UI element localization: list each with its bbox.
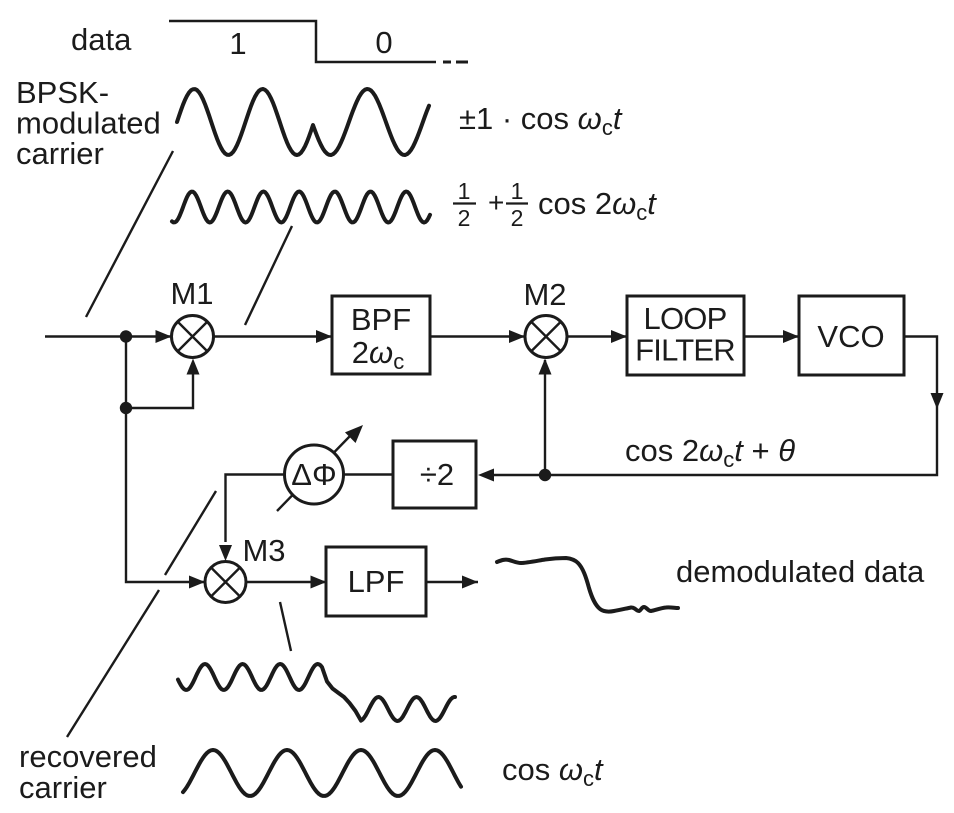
svg-text:data: data [71, 22, 132, 57]
svg-text:BPF: BPF [351, 302, 411, 337]
svg-text:±1 · cos ωct: ±1 · cos ωct [459, 101, 623, 140]
arrowhead: into M1 bottom [187, 359, 200, 375]
junction node: feedback line [539, 469, 551, 481]
wire: VCO output down to feedback line [490, 337, 937, 476]
waveform: M3 output ripple step [178, 664, 455, 721]
wire: data high level [169, 21, 436, 62]
svg-text:1: 1 [458, 178, 471, 204]
svg-text:carrier: carrier [16, 136, 104, 171]
svg-text:÷2: ÷2 [420, 457, 454, 492]
arrowhead: into M1 [156, 330, 172, 343]
block divide-by-2 [393, 441, 476, 508]
svg-text:0: 0 [375, 25, 392, 60]
svg-text:carrier: carrier [19, 770, 107, 805]
phase shifter circle [285, 445, 344, 504]
pointer line: recovered carrier lower segment [67, 590, 159, 737]
wire: BPF to M2 [430, 335, 525, 337]
svg-text:+: + [488, 187, 504, 218]
waveform: demodulated data [497, 558, 678, 612]
svg-text:2: 2 [511, 205, 524, 231]
junction node: lower branch [120, 402, 132, 414]
block BPF [332, 296, 430, 374]
wire: LPF output [426, 581, 478, 583]
wire: LOOP FILTER to VCO [744, 335, 799, 337]
block LOOP FILTER [627, 296, 744, 375]
svg-text:cos 2ωct: cos 2ωct [538, 186, 657, 225]
arrowhead: into VCO [783, 330, 799, 343]
svg-text:M2: M2 [523, 277, 566, 312]
svg-text:recovered: recovered [19, 739, 157, 774]
wire: feedback branch up to M2 [544, 360, 546, 475]
wire: M3 to LPF [246, 581, 326, 583]
svg-text:FILTER: FILTER [635, 333, 735, 368]
arrowhead: into M2 [509, 330, 525, 343]
waveform: BPSK modulated carrier [177, 89, 429, 155]
arrowhead: into M3 top [219, 545, 232, 561]
arrowhead: feedback into M2 bottom [539, 359, 552, 375]
arrowhead: LPF output [462, 576, 478, 589]
pointer line: recovered carrier upper segment [165, 491, 216, 575]
svg-text:1: 1 [229, 26, 246, 61]
pointer line: squared signal to M1-BPF wire [245, 226, 292, 325]
pointer line: BPSK carrier to input wire [86, 151, 173, 317]
svg-text:M3: M3 [242, 533, 285, 568]
arrowhead: into BPF [316, 330, 332, 343]
svg-text:1: 1 [511, 178, 524, 204]
arrowhead: phase shifter adjustment [345, 420, 368, 443]
waveform: squared carrier 2wc [172, 192, 430, 223]
wire: left branch down from input [126, 337, 204, 583]
phase shifter adjustment arrow line [277, 436, 350, 511]
svg-text:2: 2 [458, 205, 471, 231]
arrowhead: into LOOP FILTER [611, 330, 627, 343]
junction node: input / M1 branch [120, 330, 132, 342]
wire: M2 to LOOP FILTER [567, 335, 627, 337]
svg-text:ΔΦ: ΔΦ [291, 457, 336, 492]
svg-text:LOOP: LOOP [644, 301, 727, 336]
wire: branch to M1 lower input [126, 374, 193, 408]
svg-text:VCO: VCO [817, 319, 884, 354]
multiplier M2 [525, 316, 567, 358]
wire: divide-by-2 to phase shifter [344, 473, 394, 475]
svg-text:LPF: LPF [348, 564, 405, 599]
formula: 1/2 + 1/2 cos 2wct [453, 178, 657, 231]
wire: M1 to BPF [214, 335, 332, 337]
arrowhead: into M3 left [189, 576, 205, 589]
arrowhead: into divide-by-2 [478, 469, 494, 482]
block VCO [799, 296, 904, 375]
svg-text:M1: M1 [170, 276, 213, 311]
svg-text:cos ωct: cos ωct [502, 752, 604, 791]
svg-text:demodulated data: demodulated data [676, 554, 925, 589]
arrowhead: into LPF [311, 576, 327, 589]
arrowhead: VCO output downward [931, 393, 944, 409]
block LPF [326, 547, 426, 616]
multiplier M3 [205, 562, 246, 603]
wire: main input line [45, 335, 172, 337]
multiplier M1 [172, 316, 214, 358]
wire: phase shifter to M3 [226, 475, 285, 543]
svg-text:2ωc: 2ωc [352, 335, 404, 374]
svg-text:cos 2ωct + θ: cos 2ωct + θ [625, 433, 795, 472]
pointer line: M3 output to ripple waveform [280, 602, 291, 651]
wire: data dashed continuation [443, 61, 468, 64]
waveform: recovered carrier sine [183, 750, 461, 796]
